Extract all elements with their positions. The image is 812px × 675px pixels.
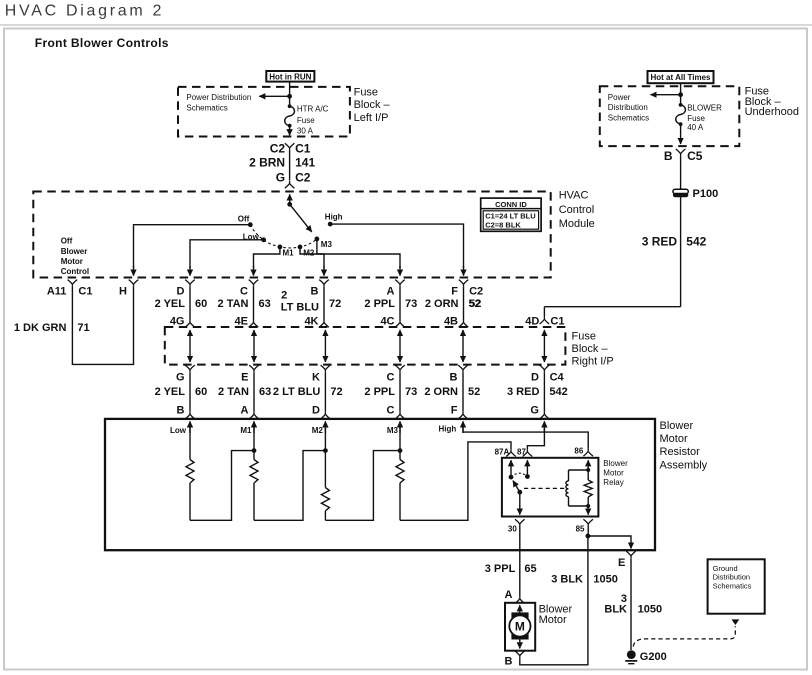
svg-text:Hot in RUN: Hot in RUN xyxy=(269,73,311,82)
svg-text:141: 141 xyxy=(295,156,315,170)
svg-text:E: E xyxy=(618,557,625,569)
svg-text:High: High xyxy=(325,213,343,222)
svg-text:2 ORN: 2 ORN xyxy=(424,386,458,398)
svg-text:Schematics: Schematics xyxy=(713,582,752,591)
svg-text:2 ORN: 2 ORN xyxy=(425,298,459,310)
svg-text:Power Distribution: Power Distribution xyxy=(186,93,251,102)
svg-text:2 LT BLU: 2 LT BLU xyxy=(273,386,321,398)
svg-text:C: C xyxy=(387,405,395,417)
svg-text:Fuse: Fuse xyxy=(572,330,596,342)
svg-text:G200: G200 xyxy=(640,651,667,663)
svg-text:M1: M1 xyxy=(283,249,295,258)
svg-text:Schematics: Schematics xyxy=(608,113,649,122)
svg-text:73: 73 xyxy=(405,386,417,398)
svg-text:4B: 4B xyxy=(444,315,458,327)
svg-text:1 DK GRN: 1 DK GRN xyxy=(14,322,67,334)
svg-text:Block –: Block – xyxy=(354,99,391,111)
svg-text:72: 72 xyxy=(329,298,341,310)
svg-text:Module: Module xyxy=(559,218,595,230)
svg-text:A: A xyxy=(387,286,395,298)
svg-text:M: M xyxy=(515,620,525,634)
svg-text:HTR A/C: HTR A/C xyxy=(297,105,329,114)
svg-text:Hot at All Times: Hot at All Times xyxy=(650,73,711,82)
svg-text:B: B xyxy=(450,371,458,383)
svg-text:High: High xyxy=(439,425,457,434)
svg-text:M2: M2 xyxy=(303,249,315,258)
svg-text:542: 542 xyxy=(549,386,567,398)
svg-text:87A: 87A xyxy=(495,447,510,456)
svg-text:P100: P100 xyxy=(693,188,719,200)
svg-text:Ground: Ground xyxy=(713,564,738,573)
svg-text:2 YEL: 2 YEL xyxy=(155,386,186,398)
svg-text:Distribution: Distribution xyxy=(608,103,648,112)
svg-text:3 PPL: 3 PPL xyxy=(485,563,516,575)
svg-text:G: G xyxy=(276,171,285,185)
svg-text:2 PPL: 2 PPL xyxy=(364,386,395,398)
svg-text:60: 60 xyxy=(195,386,207,398)
svg-text:Resistor: Resistor xyxy=(660,446,701,458)
svg-text:C1: C1 xyxy=(78,286,92,298)
svg-text:86: 86 xyxy=(574,447,583,456)
svg-text:C: C xyxy=(240,286,248,298)
svg-text:87: 87 xyxy=(517,447,526,456)
svg-text:40 A: 40 A xyxy=(687,123,704,132)
svg-text:H: H xyxy=(119,286,127,298)
svg-text:Motor: Motor xyxy=(603,468,624,477)
svg-text:65: 65 xyxy=(524,563,536,575)
svg-text:4E: 4E xyxy=(235,315,248,327)
svg-text:M3: M3 xyxy=(321,240,333,249)
svg-text:LT BLU: LT BLU xyxy=(281,302,319,314)
svg-text:Fuse: Fuse xyxy=(687,114,705,123)
svg-text:Low: Low xyxy=(170,426,187,435)
svg-text:Relay: Relay xyxy=(603,478,623,487)
svg-text:K: K xyxy=(312,371,320,383)
svg-text:D: D xyxy=(531,371,539,383)
svg-text:1050: 1050 xyxy=(638,604,662,616)
svg-text:G: G xyxy=(530,405,539,417)
svg-text:HVAC: HVAC xyxy=(559,189,589,201)
svg-text:63: 63 xyxy=(259,386,271,398)
svg-text:C1=24 LT BLU: C1=24 LT BLU xyxy=(485,212,536,221)
svg-text:B: B xyxy=(177,405,185,417)
svg-text:2 TAN: 2 TAN xyxy=(218,298,249,310)
svg-text:85: 85 xyxy=(576,525,585,534)
svg-text:G: G xyxy=(176,371,185,383)
svg-text:C5: C5 xyxy=(687,149,703,163)
svg-text:Front Blower Controls: Front Blower Controls xyxy=(35,36,169,50)
svg-text:C2=8 BLK: C2=8 BLK xyxy=(485,220,521,229)
svg-text:4D: 4D xyxy=(525,315,539,327)
svg-text:D: D xyxy=(312,405,320,417)
svg-text:C2: C2 xyxy=(295,171,311,185)
svg-text:F: F xyxy=(451,405,458,417)
svg-text:Control: Control xyxy=(559,204,594,216)
svg-text:M3: M3 xyxy=(387,426,399,435)
svg-text:C1: C1 xyxy=(295,142,311,156)
svg-text:4C: 4C xyxy=(380,315,394,327)
svg-text:F: F xyxy=(451,286,458,298)
svg-text:D: D xyxy=(177,286,185,298)
svg-text:Left I/P: Left I/P xyxy=(354,112,389,124)
svg-text:72: 72 xyxy=(330,386,342,398)
svg-text:Off: Off xyxy=(238,214,250,223)
svg-text:A11: A11 xyxy=(47,286,67,298)
svg-text:Blower: Blower xyxy=(660,420,694,432)
svg-text:2 YEL: 2 YEL xyxy=(155,298,186,310)
svg-text:A: A xyxy=(241,405,249,417)
svg-text:BLK: BLK xyxy=(604,604,627,616)
svg-text:Block –: Block – xyxy=(572,343,609,355)
svg-text:2: 2 xyxy=(281,289,287,301)
svg-text:M2: M2 xyxy=(312,426,324,435)
svg-text:Motor: Motor xyxy=(660,433,688,445)
svg-text:2 PPL: 2 PPL xyxy=(364,298,395,310)
svg-text:63: 63 xyxy=(259,298,271,310)
svg-text:Distribution: Distribution xyxy=(713,573,751,582)
svg-text:HVAC Diagram 2: HVAC Diagram 2 xyxy=(5,3,164,20)
svg-text:C2: C2 xyxy=(469,286,483,298)
svg-text:C2: C2 xyxy=(270,142,286,156)
svg-text:542: 542 xyxy=(686,234,706,248)
svg-text:30: 30 xyxy=(508,525,517,534)
svg-text:52: 52 xyxy=(468,386,480,398)
svg-text:71: 71 xyxy=(77,322,89,334)
svg-text:Right I/P: Right I/P xyxy=(572,355,614,367)
svg-text:Blower: Blower xyxy=(61,247,88,256)
svg-text:CONN ID: CONN ID xyxy=(495,200,527,209)
svg-text:1050: 1050 xyxy=(593,573,617,585)
svg-text:Fuse: Fuse xyxy=(354,87,378,99)
svg-text:B: B xyxy=(504,655,512,667)
svg-text:Off: Off xyxy=(61,236,73,245)
svg-text:Schematics: Schematics xyxy=(186,104,227,113)
svg-text:Fuse: Fuse xyxy=(297,116,315,125)
svg-text:30 A: 30 A xyxy=(297,127,314,136)
svg-text:2 TAN: 2 TAN xyxy=(218,386,249,398)
svg-text:BLOWER: BLOWER xyxy=(687,104,722,113)
svg-text:4K: 4K xyxy=(304,315,318,327)
svg-text:C: C xyxy=(387,371,395,383)
svg-text:4G: 4G xyxy=(170,315,185,327)
svg-text:Blower: Blower xyxy=(603,459,628,468)
svg-text:C1: C1 xyxy=(550,315,564,327)
svg-text:73: 73 xyxy=(405,298,417,310)
svg-text:60: 60 xyxy=(195,298,207,310)
svg-text:Power: Power xyxy=(608,93,631,102)
svg-text:52: 52 xyxy=(469,298,481,310)
svg-text:Motor: Motor xyxy=(539,614,567,626)
svg-text:A: A xyxy=(504,589,512,601)
svg-text:Control: Control xyxy=(61,267,89,276)
svg-text:Motor: Motor xyxy=(61,257,83,266)
svg-text:3 BLK: 3 BLK xyxy=(551,573,583,585)
svg-text:2 BRN: 2 BRN xyxy=(249,156,285,170)
svg-text:B: B xyxy=(311,286,319,298)
svg-text:Underhood: Underhood xyxy=(745,106,799,118)
svg-text:E: E xyxy=(241,371,248,383)
svg-text:3 RED: 3 RED xyxy=(507,386,539,398)
svg-text:M1: M1 xyxy=(240,426,252,435)
svg-text:C4: C4 xyxy=(550,371,565,383)
svg-text:3 RED: 3 RED xyxy=(642,234,678,248)
svg-text:Assembly: Assembly xyxy=(660,459,708,471)
svg-text:B: B xyxy=(664,149,673,163)
